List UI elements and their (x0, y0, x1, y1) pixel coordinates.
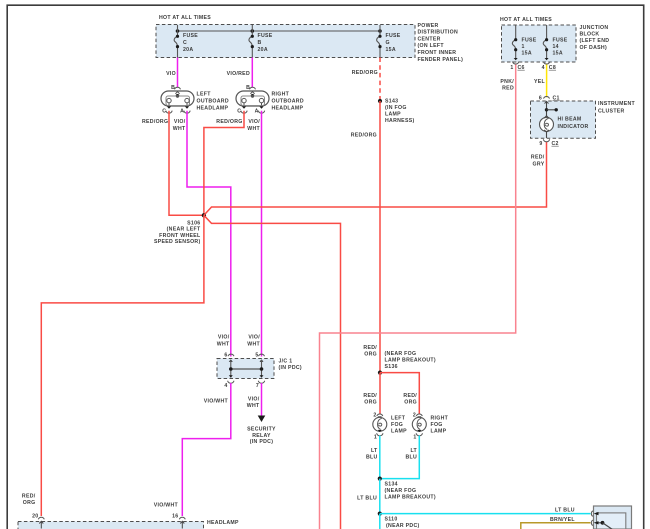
svg-text:OF DASH): OF DASH) (580, 45, 607, 51)
wire BRN/YEL to headlamp switch (521, 517, 591, 529)
svg-text:LT: LT (371, 448, 378, 454)
svg-text:HOT AT ALL TIMES: HOT AT ALL TIMES (159, 15, 211, 21)
svg-text:(LEFT END: (LEFT END (580, 38, 610, 44)
svg-text:FUSE: FUSE (183, 33, 198, 39)
svg-text:HEADLAMP: HEADLAMP (207, 520, 239, 526)
svg-text:VIO: VIO (166, 71, 176, 77)
svg-text:RED/ORG: RED/ORG (351, 133, 377, 139)
left outboard headlamp U-left (161, 85, 229, 115)
svg-text:RED/: RED/ (22, 493, 36, 499)
wire VIO/WHT right headlamp A to J/C1 pin 5 (247, 111, 261, 357)
svg-text:POWER: POWER (418, 23, 439, 29)
pin 1 C6 (510, 65, 524, 71)
LT BLU entry connector (591, 511, 598, 517)
svg-text:FRONT INNER: FRONT INNER (418, 50, 457, 56)
wire VIO/WHT J/C1 pin 4 to headlamp pin 16 (154, 383, 231, 516)
svg-text:ORG: ORG (404, 399, 417, 405)
svg-text:B: B (258, 40, 262, 46)
wire LT BLU S110 to headlamp switch (380, 507, 591, 513)
wire RED/ORG S106 to headlamp pin 20 (22, 215, 204, 516)
right outboard headlamp (236, 85, 304, 115)
svg-text:VIO/: VIO/ (248, 119, 260, 125)
svg-text:GRY: GRY (533, 161, 545, 167)
svg-text:HOT AT ALL TIMES: HOT AT ALL TIMES (500, 17, 552, 23)
svg-text:WHT: WHT (217, 341, 230, 347)
svg-text:BLOCK: BLOCK (580, 32, 600, 38)
svg-text:HEADLAMP: HEADLAMP (197, 105, 229, 111)
svg-text:(IN PDC): (IN PDC) (250, 439, 273, 445)
svg-text:C: C (183, 40, 187, 46)
svg-text:OUTBOARD: OUTBOARD (197, 99, 229, 105)
wire VIO/WHT J/C1 pin 7 to security relay (247, 383, 262, 416)
svg-text:C2: C2 (552, 141, 559, 147)
svg-text:LAMP: LAMP (431, 429, 447, 435)
wire RED/ORG fuse G (dashed) to S143 (352, 58, 380, 102)
svg-text:C: C (237, 108, 241, 114)
svg-text:LEFT: LEFT (197, 92, 212, 98)
pin 20 (32, 514, 44, 529)
svg-text:RED/: RED/ (531, 155, 545, 161)
svg-text:B: B (171, 85, 175, 91)
svg-text:A: A (255, 109, 259, 115)
pin 16 (172, 514, 185, 529)
svg-text:VIO/WHT: VIO/WHT (204, 399, 229, 405)
svg-text:HI BEAM: HI BEAM (558, 117, 582, 123)
svg-text:CLUSTER: CLUSTER (598, 108, 625, 114)
wire LT BLU right fog lamp to S134 (380, 436, 420, 479)
svg-text:S106: S106 (187, 220, 200, 226)
svg-text:A: A (180, 109, 184, 115)
wire RED/ORG left headlamp C to S106 (142, 111, 204, 216)
svg-text:1: 1 (413, 435, 416, 441)
junction block box (500, 17, 609, 62)
svg-text:C8: C8 (549, 65, 556, 71)
fuse G 15A (377, 25, 401, 58)
wire VIO/WHT left headlamp A to J/C1 pin 6 (173, 111, 231, 357)
svg-text:OUTBOARD: OUTBOARD (272, 99, 304, 105)
fuse C 20A (174, 25, 198, 58)
node S136 (363, 345, 435, 375)
svg-text:RIGHT: RIGHT (272, 92, 290, 98)
svg-text:9: 9 (539, 141, 542, 147)
svg-text:VIO/: VIO/ (248, 335, 260, 341)
svg-text:JUNCTION: JUNCTION (580, 25, 609, 31)
svg-text:(NEAR FOG: (NEAR FOG (385, 351, 417, 357)
svg-text:YEL: YEL (534, 79, 546, 85)
svg-text:ORG: ORG (23, 500, 36, 506)
svg-text:BLU: BLU (405, 455, 417, 461)
svg-text:WHT: WHT (247, 341, 260, 347)
svg-text:C: C (162, 108, 166, 114)
svg-text:RED/: RED/ (363, 393, 377, 399)
wire RED/ORG right headlamp C to S106 (204, 111, 244, 216)
pin 9 C2 (539, 139, 558, 147)
svg-text:7: 7 (256, 383, 259, 389)
svg-text:BRN/YEL: BRN/YEL (550, 517, 575, 523)
svg-text:2: 2 (373, 412, 376, 418)
right fog lamp (412, 412, 448, 440)
fuse 1 15A (512, 25, 536, 64)
svg-text:14: 14 (553, 44, 559, 50)
svg-text:1: 1 (374, 435, 377, 441)
svg-text:FOG: FOG (431, 422, 443, 428)
BRN/YEL entry connector and switch (591, 520, 612, 529)
security relay arrow (247, 416, 276, 446)
svg-text:VIO/: VIO/ (218, 335, 230, 341)
node S134 (378, 477, 436, 501)
svg-text:HEADLAMP: HEADLAMP (272, 105, 304, 111)
svg-text:S134: S134 (385, 482, 398, 488)
svg-text:LT BLU: LT BLU (555, 507, 575, 513)
wire RED/GRY S106 to instrument cluster pin 9 (204, 142, 547, 215)
svg-text:BLU: BLU (366, 455, 378, 461)
svg-text:HARNESS): HARNESS) (385, 118, 415, 124)
svg-text:RED: RED (502, 86, 514, 92)
svg-text:4: 4 (224, 383, 227, 389)
power distribution center box (156, 15, 463, 63)
svg-text:FUSE: FUSE (553, 37, 568, 43)
headlamp switch box (bottom right) (594, 506, 632, 529)
svg-text:2: 2 (413, 412, 416, 418)
svg-text:WHT: WHT (247, 403, 260, 409)
svg-text:ORG: ORG (364, 352, 377, 358)
svg-text:VIO/: VIO/ (248, 396, 260, 402)
svg-text:15A: 15A (553, 51, 563, 57)
svg-text:VIO/RED: VIO/RED (227, 71, 250, 77)
svg-text:LEFT: LEFT (391, 416, 406, 422)
svg-text:S143: S143 (385, 98, 398, 104)
svg-text:VIO/: VIO/ (174, 119, 186, 125)
wire RED/ORG S106 lower branch down right (204, 215, 341, 529)
svg-text:20A: 20A (258, 47, 268, 53)
wire RED/ORG S143 to S136 (351, 101, 380, 373)
hi beam indicator lamp (540, 101, 589, 138)
wire LT BLU S134 to S110 (357, 479, 380, 514)
svg-text:INDICATOR: INDICATOR (558, 124, 589, 130)
svg-text:FRONT WHEEL: FRONT WHEEL (159, 233, 201, 239)
svg-text:INSTRUMENT: INSTRUMENT (598, 101, 636, 107)
svg-text:4: 4 (542, 65, 545, 71)
svg-text:RELAY: RELAY (252, 433, 271, 439)
wire RED/ORG S136 to right fog lamp (380, 373, 419, 415)
left fog lamp (373, 412, 407, 440)
pin 4 C8 (542, 65, 556, 71)
svg-text:DISTRIBUTION: DISTRIBUTION (418, 30, 459, 36)
svg-text:20: 20 (32, 514, 38, 520)
svg-text:LAMP BREAKOUT): LAMP BREAKOUT) (385, 494, 436, 500)
svg-text:J/C 1: J/C 1 (279, 359, 293, 365)
svg-text:RED/ORG: RED/ORG (352, 70, 378, 76)
svg-text:FUSE: FUSE (386, 33, 401, 39)
svg-text:FUSE: FUSE (522, 37, 537, 43)
svg-text:(IN FOG: (IN FOG (385, 105, 407, 111)
svg-text:LT BLU: LT BLU (357, 495, 377, 501)
svg-text:FENDER PANEL): FENDER PANEL) (418, 57, 464, 63)
svg-text:G: G (386, 40, 390, 46)
svg-text:6: 6 (224, 353, 227, 359)
svg-text:15A: 15A (522, 51, 532, 57)
svg-text:RED/: RED/ (363, 345, 377, 351)
svg-text:15A: 15A (386, 47, 396, 53)
svg-text:B: B (246, 85, 250, 91)
svg-text:C6: C6 (518, 65, 525, 71)
svg-text:S110: S110 (385, 517, 398, 523)
instrument cluster box (531, 95, 636, 138)
svg-text:PNK/: PNK/ (500, 79, 514, 85)
svg-text:1: 1 (510, 65, 513, 71)
svg-text:LT: LT (410, 448, 417, 454)
svg-text:SECURITY: SECURITY (247, 426, 276, 432)
fuse 14 15A (543, 25, 567, 64)
wire YEL fuse 14 to instrument cluster pin 6 (534, 65, 547, 98)
svg-text:16: 16 (172, 514, 178, 520)
svg-text:SPEED SENSOR): SPEED SENSOR) (154, 239, 201, 245)
svg-text:LAMP: LAMP (385, 111, 401, 117)
svg-text:CENTER: CENTER (418, 36, 441, 42)
svg-text:FOG: FOG (391, 422, 403, 428)
svg-text:(NEAR LEFT: (NEAR LEFT (167, 226, 201, 232)
svg-text:S136: S136 (385, 364, 398, 370)
svg-text:VIO/WHT: VIO/WHT (154, 503, 179, 509)
node S106 (154, 213, 206, 245)
svg-text:ORG: ORG (364, 399, 377, 405)
svg-text:(ON LEFT: (ON LEFT (418, 43, 445, 49)
svg-text:LAMP BREAKOUT): LAMP BREAKOUT) (385, 357, 436, 363)
wire VIO/RED fuse B to right headlamp (227, 58, 253, 88)
junction connector J/C 1 box (217, 335, 302, 389)
svg-text:1: 1 (522, 44, 525, 50)
svg-text:WHT: WHT (173, 126, 186, 132)
svg-text:WHT: WHT (247, 126, 260, 132)
svg-text:RIGHT: RIGHT (431, 416, 449, 422)
svg-text:FUSE: FUSE (258, 33, 273, 39)
svg-text:RED/ORG: RED/ORG (142, 119, 168, 125)
hot bus wire (176, 29, 382, 33)
svg-text:20A: 20A (183, 47, 193, 53)
svg-text:LAMP: LAMP (391, 429, 407, 435)
svg-text:(NEAR FOG: (NEAR FOG (385, 488, 417, 494)
wire PNK/RED fuse 1 down and to bottom (320, 65, 516, 529)
wire VIO fuse C to left headlamp (166, 58, 177, 88)
svg-text:5: 5 (255, 353, 258, 359)
headlamp switch box (bottom left) (18, 520, 239, 529)
svg-text:(NEAR PDC): (NEAR PDC) (386, 523, 420, 529)
svg-text:RED/: RED/ (403, 393, 417, 399)
svg-text:RED/ORG: RED/ORG (216, 119, 242, 125)
node S110 (378, 511, 420, 529)
svg-text:(IN PDC): (IN PDC) (279, 365, 302, 371)
node S143 (378, 98, 415, 123)
wire RED/ORG S136 to left fog lamp (363, 373, 380, 415)
fuse B 20A (249, 25, 273, 58)
wire LT BLU left fog lamp to S134 (366, 436, 380, 479)
